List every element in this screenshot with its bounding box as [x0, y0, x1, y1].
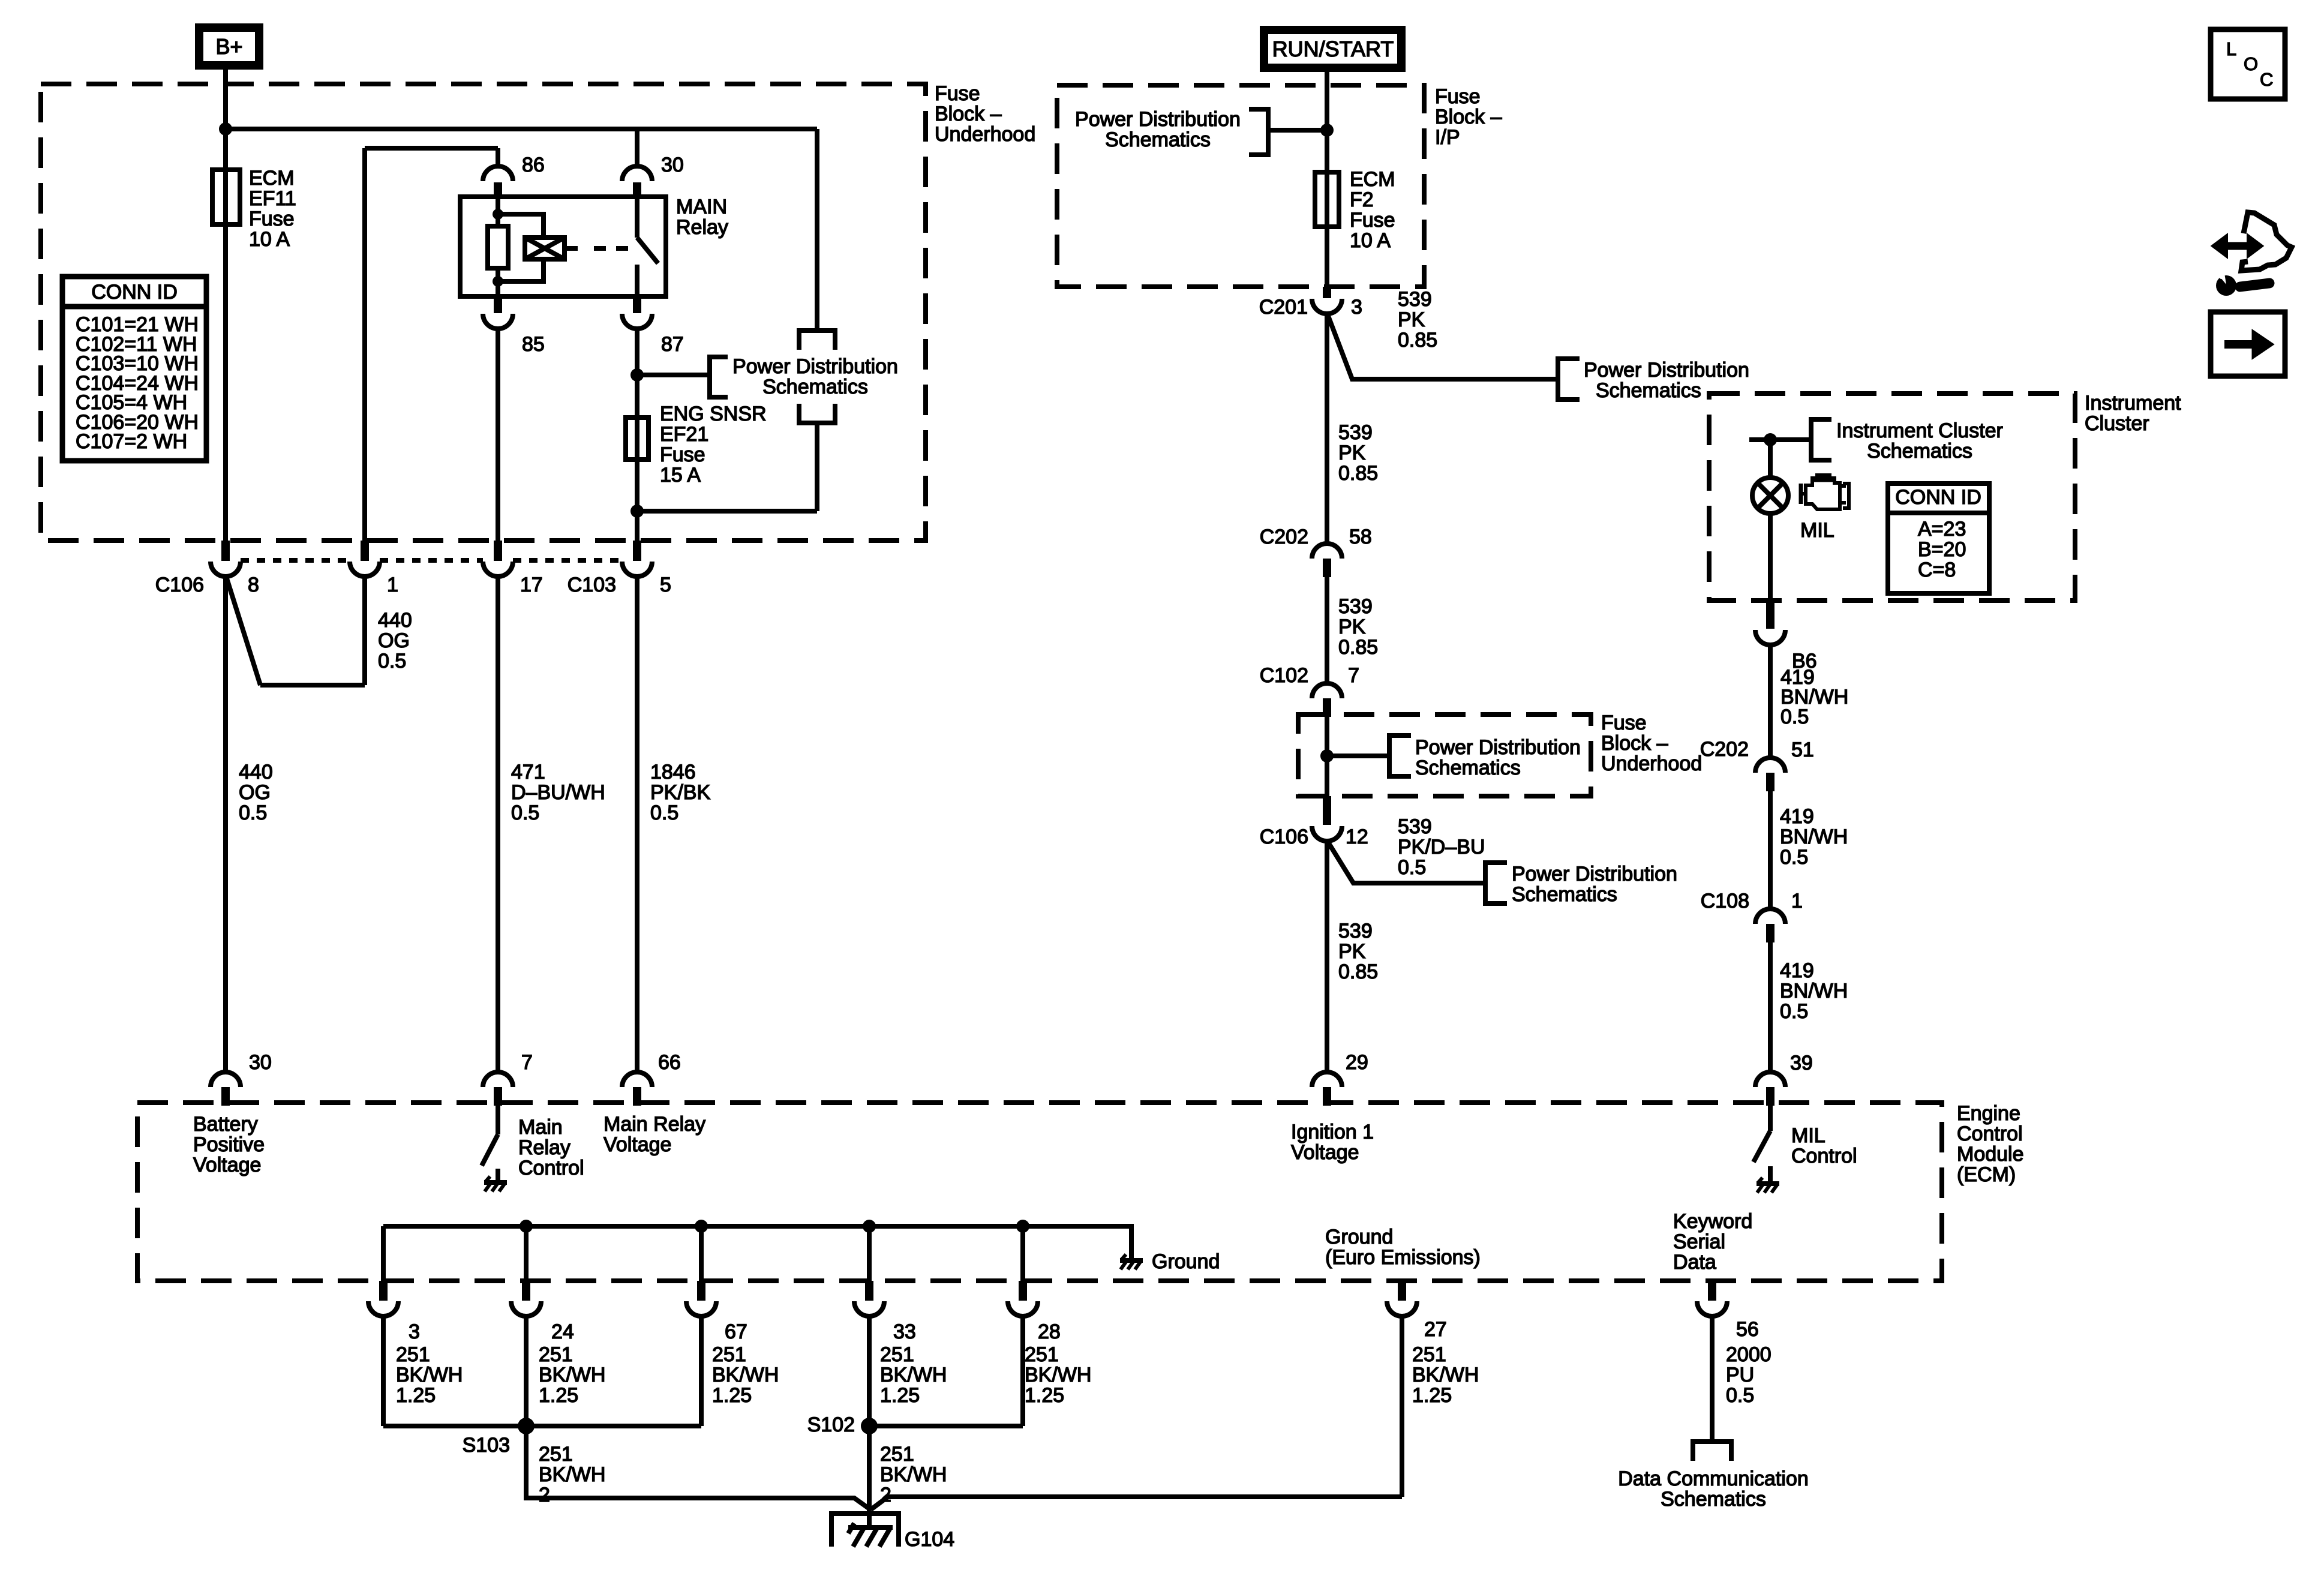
connector C106 pin 8	[155, 541, 259, 596]
wire label 419 BN/WH 0.5 second	[1780, 805, 1848, 869]
svg-text:0.5: 0.5	[378, 650, 406, 673]
connector C103 pin 5	[568, 541, 671, 596]
node junction F2 feed tap	[1320, 124, 1334, 137]
svg-text:BK/WH: BK/WH	[539, 1463, 605, 1486]
wire bus drop pin 28	[1020, 1226, 1025, 1282]
svg-text:BN/WH: BN/WH	[1780, 980, 1848, 1002]
wire winding branch bottom	[498, 259, 544, 281]
wire pin1 loop to main 440 wire	[226, 575, 365, 685]
connector ECM pin 3	[368, 1281, 420, 1343]
wire label 440 OG 0.5 main	[239, 761, 273, 824]
label ground euro emissions	[1325, 1226, 1481, 1269]
wire tap to bracket in small box	[1327, 754, 1389, 758]
connector pin 87	[622, 296, 684, 356]
svg-text:1: 1	[1791, 890, 1803, 912]
wire label 539 PK 0.85 first	[1398, 288, 1437, 352]
svg-text:C202: C202	[1700, 738, 1749, 761]
svg-text:Power Distribution: Power Distribution	[1075, 108, 1241, 131]
svg-text:BK/WH: BK/WH	[539, 1364, 605, 1386]
svg-text:539: 539	[1338, 421, 1373, 444]
svg-text:ENG SNSR: ENG SNSR	[660, 403, 767, 425]
svg-text:S102: S102	[807, 1413, 855, 1436]
wire label 539 PK 0.85 third	[1338, 595, 1378, 659]
wire pin 85 down to C106 pin 17	[496, 328, 500, 543]
svg-text:Schematics: Schematics	[1596, 379, 1701, 402]
icon diagnostic arrows wrench	[2212, 212, 2292, 296]
svg-text:ECM: ECM	[1350, 168, 1395, 191]
svg-text:Ground: Ground	[1152, 1250, 1220, 1273]
svg-text:3: 3	[409, 1320, 420, 1343]
svg-text:Schematics: Schematics	[762, 376, 868, 398]
label battery positive voltage	[193, 1113, 265, 1176]
svg-text:Block –: Block –	[1435, 106, 1502, 128]
svg-text:Voltage: Voltage	[193, 1154, 261, 1176]
svg-text:66: 66	[658, 1051, 681, 1074]
icon LOC box top right	[2211, 29, 2285, 99]
svg-text:1.25: 1.25	[1412, 1384, 1452, 1407]
svg-text:419: 419	[1780, 805, 1814, 828]
svg-text:Fuse: Fuse	[1435, 85, 1481, 108]
wire bus drop pin 24	[524, 1226, 529, 1282]
node junction at B+ feed	[219, 122, 232, 136]
off-page connector power distribution schematics (eng snsr)	[710, 355, 898, 398]
svg-text:Power Distribution: Power Distribution	[1512, 863, 1677, 885]
svg-text:251: 251	[1412, 1343, 1446, 1366]
svg-text:539: 539	[1338, 595, 1373, 618]
svg-text:440: 440	[378, 609, 412, 632]
svg-text:12: 12	[1346, 825, 1368, 848]
wire splice S103 bus	[383, 1424, 701, 1428]
svg-text:0.85: 0.85	[1338, 462, 1378, 485]
svg-text:Instrument: Instrument	[2085, 392, 2181, 415]
off-page connector power distribution (C201 branch)	[1558, 359, 1749, 402]
svg-text:251: 251	[880, 1443, 914, 1466]
svg-text:PU: PU	[1726, 1364, 1754, 1386]
svg-text:1.25: 1.25	[712, 1384, 752, 1407]
svg-text:B=20: B=20	[1918, 538, 1966, 561]
fuse block IP label	[1435, 85, 1502, 149]
wire label 539 PK/D-BU 0.5	[1398, 815, 1485, 879]
wire C108 down to ECM pin 39	[1768, 942, 1773, 1073]
svg-text:C: C	[2260, 69, 2273, 90]
svg-text:C=8: C=8	[1918, 559, 1956, 581]
svg-text:BN/WH: BN/WH	[1780, 825, 1848, 848]
svg-text:419: 419	[1780, 959, 1814, 982]
fuse block IP dashed box	[1057, 85, 1424, 287]
wire fuse output to bracket return	[637, 509, 817, 514]
node junction small box tap	[1320, 749, 1334, 763]
svg-text:B+: B+	[215, 34, 242, 59]
svg-text:MIL: MIL	[1791, 1124, 1825, 1147]
svg-text:O: O	[2244, 53, 2258, 74]
wire RUN/START down through fuse F2	[1325, 68, 1329, 289]
svg-text:0.5: 0.5	[650, 801, 678, 824]
svg-text:EF21: EF21	[660, 423, 708, 446]
svg-text:D–BU/WH: D–BU/WH	[511, 781, 605, 804]
relay winding symbol	[525, 238, 565, 259]
svg-text:251: 251	[539, 1443, 573, 1466]
svg-text:0.5: 0.5	[239, 801, 267, 824]
svg-text:C202: C202	[1260, 526, 1308, 548]
ECM dashed box	[137, 1103, 1942, 1281]
wire ignition down to ECM pin 29	[1325, 840, 1329, 1073]
label main relay voltage	[603, 1113, 705, 1156]
svg-text:Schematics: Schematics	[1867, 440, 1972, 463]
svg-text:(ECM): (ECM)	[1957, 1163, 2016, 1186]
svg-text:17: 17	[520, 574, 543, 596]
svg-text:Fuse: Fuse	[1601, 712, 1647, 734]
connector C108 pin 1	[1701, 890, 1803, 942]
svg-text:Keyword: Keyword	[1673, 1210, 1752, 1233]
wire vertical to relay pin 30	[635, 129, 639, 167]
svg-text:1.25: 1.25	[880, 1384, 920, 1407]
svg-text:Positive: Positive	[193, 1133, 265, 1156]
ground G104	[831, 1514, 954, 1551]
svg-text:33: 33	[893, 1320, 916, 1343]
svg-text:Main Relay: Main Relay	[603, 1113, 705, 1136]
svg-text:Control: Control	[518, 1157, 584, 1179]
wire ECM internal ground bus	[383, 1226, 1131, 1259]
svg-text:539: 539	[1338, 920, 1373, 942]
wire label 471 D-BU/WH 0.5	[511, 761, 605, 824]
svg-text:C106: C106	[155, 574, 204, 596]
off-page connector power distribution (C106 branch)	[1485, 863, 1677, 906]
wire S103 to G104 ground run	[526, 1426, 871, 1510]
wire C202 to C102	[1325, 577, 1329, 685]
svg-text:Module: Module	[1957, 1143, 2024, 1166]
wire relay armature dashes	[565, 246, 628, 251]
wire S102 down to G104	[867, 1426, 872, 1527]
svg-text:Relay: Relay	[676, 216, 728, 239]
svg-text:539: 539	[1398, 815, 1432, 838]
svg-text:Battery: Battery	[193, 1113, 258, 1136]
node coil bottom	[493, 276, 503, 287]
connector C106 pin 1	[350, 541, 398, 596]
svg-text:1.25: 1.25	[1025, 1384, 1064, 1407]
power symbol B+ box	[199, 28, 259, 65]
svg-text:0.5: 0.5	[511, 801, 539, 824]
svg-text:0.85: 0.85	[1398, 329, 1437, 352]
wire pin 3 down to splice	[381, 1316, 386, 1426]
wire cluster feed horizontal	[1749, 437, 1811, 442]
svg-text:3: 3	[1351, 296, 1362, 319]
label keyword serial data	[1673, 1210, 1752, 1274]
node junction cluster feed	[1764, 433, 1777, 446]
svg-text:8: 8	[248, 574, 259, 596]
svg-text:30: 30	[249, 1051, 272, 1074]
svg-text:OG: OG	[239, 781, 271, 804]
svg-text:A=23: A=23	[1918, 518, 1966, 541]
svg-text:24: 24	[551, 1320, 574, 1343]
ground chassis at ECM bus	[1120, 1254, 1143, 1269]
svg-text:29: 29	[1346, 1051, 1368, 1074]
ECM module label	[1957, 1102, 2024, 1186]
svg-text:Schematics: Schematics	[1661, 1488, 1766, 1511]
connector C106 pin 12	[1260, 796, 1368, 848]
wire pin 56 down to data link	[1710, 1316, 1715, 1439]
svg-text:1846: 1846	[650, 761, 696, 784]
svg-text:F2: F2	[1350, 188, 1374, 211]
svg-text:I/P: I/P	[1435, 126, 1460, 149]
svg-text:1.25: 1.25	[396, 1384, 436, 1407]
node junction fuse output	[630, 505, 644, 518]
svg-text:Data Communication: Data Communication	[1618, 1467, 1808, 1490]
icon check engine	[1801, 475, 1849, 509]
power symbol RUN/START box	[1264, 30, 1401, 68]
svg-text:CONN ID: CONN ID	[91, 281, 178, 304]
off-page connector instrument cluster schematics	[1811, 419, 2003, 463]
svg-text:ECM: ECM	[249, 167, 295, 190]
fuse block underhood label	[935, 82, 1035, 146]
svg-text:Power Distribution: Power Distribution	[1415, 736, 1581, 759]
connector ECM pin 29	[1312, 1051, 1368, 1106]
connector ECM pin 67	[686, 1281, 747, 1343]
wire coil bottom	[496, 268, 500, 296]
wire label 251 BK/WH 1.25 pin28	[1025, 1343, 1091, 1407]
svg-text:251: 251	[1025, 1343, 1059, 1366]
svg-text:1: 1	[387, 574, 398, 596]
svg-text:C106: C106	[1260, 825, 1308, 848]
svg-text:251: 251	[539, 1343, 573, 1366]
wire through small box	[1325, 717, 1329, 796]
wire relay coil feed horizontal	[365, 146, 498, 151]
switch main relay control driver	[482, 1106, 498, 1182]
connector pin 30	[622, 154, 684, 198]
svg-text:1.25: 1.25	[539, 1384, 578, 1407]
node bus pin 24	[520, 1220, 533, 1233]
wire vertical to connector pin 1	[362, 148, 367, 543]
svg-text:251: 251	[396, 1343, 430, 1366]
connector ECM pin 39	[1755, 1052, 1813, 1106]
wire label 440 OG 0.5 pin1	[378, 609, 412, 673]
wire ignition feed down	[1325, 313, 1329, 545]
svg-text:7: 7	[521, 1051, 533, 1074]
svg-text:7: 7	[1348, 664, 1359, 687]
wire 471 down to ECM pin 7	[496, 576, 500, 1073]
connector C106 pin 17	[483, 541, 543, 596]
wire horizontal feed to relay pin 30 branch	[226, 127, 817, 131]
svg-text:Serial: Serial	[1673, 1230, 1725, 1253]
fuse ECM EF11 10A	[212, 167, 296, 251]
connector ECM pin 24	[511, 1281, 574, 1343]
svg-text:Control: Control	[1957, 1122, 2023, 1145]
svg-text:C103: C103	[568, 574, 616, 596]
svg-text:0.85: 0.85	[1338, 960, 1378, 983]
svg-text:Fuse: Fuse	[660, 443, 705, 466]
svg-text:Ignition 1: Ignition 1	[1291, 1121, 1374, 1143]
svg-text:Control: Control	[1791, 1145, 1857, 1167]
svg-text:Schematics: Schematics	[1512, 883, 1617, 906]
svg-text:PK: PK	[1398, 308, 1425, 331]
svg-text:OG: OG	[378, 629, 410, 652]
fuse ENG SNSR EF21 15A	[626, 403, 767, 487]
svg-text:Power Distribution: Power Distribution	[1584, 359, 1749, 382]
relay coil branch wire	[496, 197, 500, 228]
relay MAIN box	[460, 196, 728, 296]
svg-text:Fuse: Fuse	[1350, 209, 1395, 232]
ground chassis at main relay control	[484, 1176, 507, 1191]
svg-text:BK/WH: BK/WH	[880, 1463, 947, 1486]
wire pin 33 down to splice	[867, 1316, 872, 1426]
svg-text:Schematics: Schematics	[1105, 128, 1211, 151]
wire label 539 PK 0.85 fourth	[1338, 920, 1378, 983]
wire label 251 BK/WH 2 s102	[880, 1443, 947, 1506]
connector ECM pin 56	[1697, 1281, 1759, 1341]
node bus pin 67	[695, 1220, 708, 1233]
svg-text:0.5: 0.5	[1780, 1000, 1808, 1023]
wire label 419 BN/WH 0.5 first	[1780, 666, 1848, 728]
svg-text:0.5: 0.5	[1398, 856, 1426, 879]
icon arrow box	[2211, 312, 2285, 376]
svg-text:Block –: Block –	[935, 103, 1002, 125]
svg-text:0.5: 0.5	[1726, 1384, 1754, 1407]
svg-text:56: 56	[1736, 1318, 1759, 1341]
lamp MIL indicator	[1752, 478, 1834, 542]
svg-text:Block –: Block –	[1601, 732, 1668, 755]
svg-text:C102: C102	[1260, 664, 1308, 687]
svg-text:Relay: Relay	[518, 1136, 571, 1159]
node bus pin 33	[863, 1220, 876, 1233]
wire label 251 BK/WH 1.25 pin67	[712, 1343, 779, 1407]
svg-text:Power Distribution: Power Distribution	[732, 355, 898, 378]
connector C202 pin 51	[1700, 738, 1814, 791]
wire label 251 BK/WH 1.25 pin24	[539, 1343, 605, 1407]
connector ECM pin 33	[854, 1281, 916, 1343]
svg-text:PK/D–BU: PK/D–BU	[1398, 836, 1485, 858]
svg-text:Schematics: Schematics	[1415, 757, 1521, 779]
wire label 539 PK 0.85 second	[1338, 421, 1378, 485]
svg-text:BK/WH: BK/WH	[396, 1364, 463, 1386]
svg-text:0.5: 0.5	[1780, 706, 1809, 728]
connector C102 pin 7	[1260, 664, 1359, 717]
svg-text:C108: C108	[1701, 890, 1749, 912]
fuse ECM F2 10A	[1315, 168, 1395, 252]
wire pin 67 down to splice	[699, 1316, 704, 1426]
svg-text:BK/WH: BK/WH	[1412, 1364, 1479, 1386]
wire C106 branch to power distribution	[1328, 842, 1485, 883]
svg-text:Engine: Engine	[1957, 1102, 2020, 1125]
off-page connector bracket pair power distribution	[799, 331, 835, 423]
svg-text:39: 39	[1790, 1052, 1813, 1074]
wire B+ down to fuse EF11	[223, 65, 228, 543]
svg-text:S103: S103	[463, 1434, 510, 1457]
svg-text:Cluster: Cluster	[2085, 412, 2149, 435]
wire pin 27 down	[1400, 1316, 1404, 1497]
off-page connector power distribution (underhood)	[1389, 736, 1581, 779]
splice S103	[463, 1418, 535, 1457]
svg-text:10 A: 10 A	[249, 228, 290, 251]
wire pin 87 down to C103 pin 5	[635, 328, 639, 543]
svg-text:BK/WH: BK/WH	[880, 1364, 947, 1386]
label ignition 1 voltage	[1291, 1121, 1374, 1164]
connector C201 pin 3	[1259, 287, 1362, 319]
svg-text:440: 440	[239, 761, 273, 784]
wire label 251 BK/WH 1.25 pin3	[396, 1343, 463, 1407]
wire label 1846 PK/BK 0.5	[650, 761, 710, 824]
wire tap to power distribution bracket	[637, 373, 710, 377]
svg-text:471: 471	[511, 761, 545, 784]
instrument cluster dashed box	[1709, 394, 2075, 601]
svg-text:27: 27	[1424, 1318, 1447, 1341]
connector C202 pin 58	[1260, 526, 1372, 577]
svg-text:Ground: Ground	[1325, 1226, 1393, 1248]
svg-text:251: 251	[712, 1343, 746, 1366]
wire pin 24 down to splice	[524, 1316, 529, 1426]
svg-text:MAIN: MAIN	[676, 196, 727, 218]
svg-text:539: 539	[1398, 288, 1432, 311]
CONN ID table right	[1888, 484, 1989, 593]
svg-text:Instrument Cluster: Instrument Cluster	[1836, 419, 2003, 442]
svg-text:C201: C201	[1259, 296, 1308, 319]
node junction to power distribution tap	[630, 368, 644, 382]
wire stub into relay pin 86	[496, 148, 500, 167]
svg-text:2000: 2000	[1726, 1343, 1771, 1366]
svg-text:2: 2	[539, 1484, 550, 1506]
svg-text:0.5: 0.5	[1780, 846, 1808, 869]
wire bus drop pin 33	[867, 1226, 872, 1282]
CONN ID table left	[62, 277, 206, 461]
svg-text:BK/WH: BK/WH	[712, 1364, 779, 1386]
svg-text:28: 28	[1038, 1320, 1061, 1343]
svg-text:Main: Main	[518, 1116, 563, 1139]
svg-text:Data: Data	[1673, 1251, 1716, 1274]
svg-text:15 A: 15 A	[660, 464, 701, 487]
svg-text:RUN/START: RUN/START	[1272, 37, 1394, 61]
connector pin B6	[1755, 601, 1817, 673]
connector ECM pin 30	[211, 1051, 272, 1106]
connector ECM pin 28	[1008, 1281, 1061, 1343]
fuse block underhood dashed box	[41, 84, 926, 541]
svg-text:PK: PK	[1338, 616, 1366, 638]
svg-text:67: 67	[725, 1320, 747, 1343]
wire label 251 BK/WH 2 s103	[539, 1443, 605, 1506]
connector ECM pin 66	[622, 1051, 681, 1106]
node coil top	[493, 209, 503, 220]
svg-text:PK: PK	[1338, 442, 1366, 464]
svg-text:C107=2 WH: C107=2 WH	[76, 430, 187, 453]
fuse block underhood small label	[1601, 712, 1702, 775]
wire pin 27 ground run to G104	[871, 1497, 1402, 1509]
wire MIL lamp down to B6	[1768, 514, 1773, 629]
off-page connector power distribution (IP)	[1075, 108, 1268, 155]
svg-text:Underhood: Underhood	[1601, 752, 1702, 775]
svg-text:Fuse: Fuse	[249, 208, 295, 230]
connector ECM pin 7	[483, 1051, 533, 1106]
wire bus drop pin 67	[699, 1226, 704, 1282]
wire C201 branch to power distribution	[1328, 314, 1558, 379]
wire 440 OG main down to ECM pin 30	[223, 576, 228, 1073]
label main relay control	[518, 1116, 584, 1179]
wire branch vertical to off-page bracket	[815, 129, 819, 331]
wire tap to power distribution bracket	[1268, 128, 1327, 133]
wire label 419 BN/WH 0.5 third	[1780, 959, 1848, 1023]
wire down to MIL lamp	[1768, 440, 1773, 479]
node bus pin 28	[1016, 1220, 1029, 1233]
wire splice S102 bus	[869, 1424, 1023, 1428]
wire bus drop pin 3	[381, 1226, 386, 1282]
svg-text:85: 85	[522, 333, 545, 356]
connector row C106/C103 dotted line	[241, 558, 622, 563]
svg-text:Fuse: Fuse	[935, 82, 980, 105]
svg-text:51: 51	[1791, 739, 1814, 761]
off-page connector data communication	[1618, 1442, 1808, 1511]
switch MIL control driver	[1753, 1106, 1770, 1183]
svg-text:5: 5	[660, 574, 671, 596]
svg-text:EF11: EF11	[249, 187, 296, 210]
svg-text:(Euro Emissions): (Euro Emissions)	[1325, 1246, 1481, 1269]
svg-text:30: 30	[661, 154, 684, 176]
relay switch contacts and blade	[637, 198, 658, 296]
